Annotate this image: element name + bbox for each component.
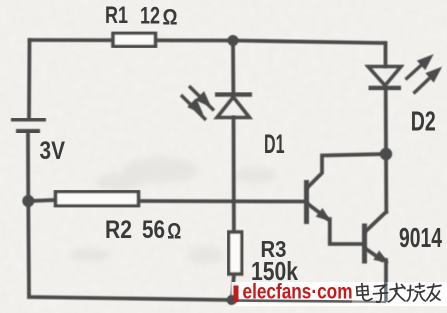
svg-text:R2: R2 bbox=[105, 216, 132, 244]
svg-text:9014: 9014 bbox=[399, 222, 442, 253]
svg-text:12: 12 bbox=[140, 2, 160, 29]
svg-text:Ω: Ω bbox=[167, 218, 181, 243]
svg-text:elecfans·com: elecfans·com bbox=[243, 281, 353, 304]
svg-text:3V: 3V bbox=[40, 137, 66, 165]
svg-text:Ω: Ω bbox=[163, 5, 178, 30]
svg-text:56: 56 bbox=[142, 216, 165, 244]
svg-text:D2: D2 bbox=[411, 105, 436, 136]
svg-text:R1: R1 bbox=[105, 2, 128, 29]
svg-text:D1: D1 bbox=[264, 129, 285, 159]
